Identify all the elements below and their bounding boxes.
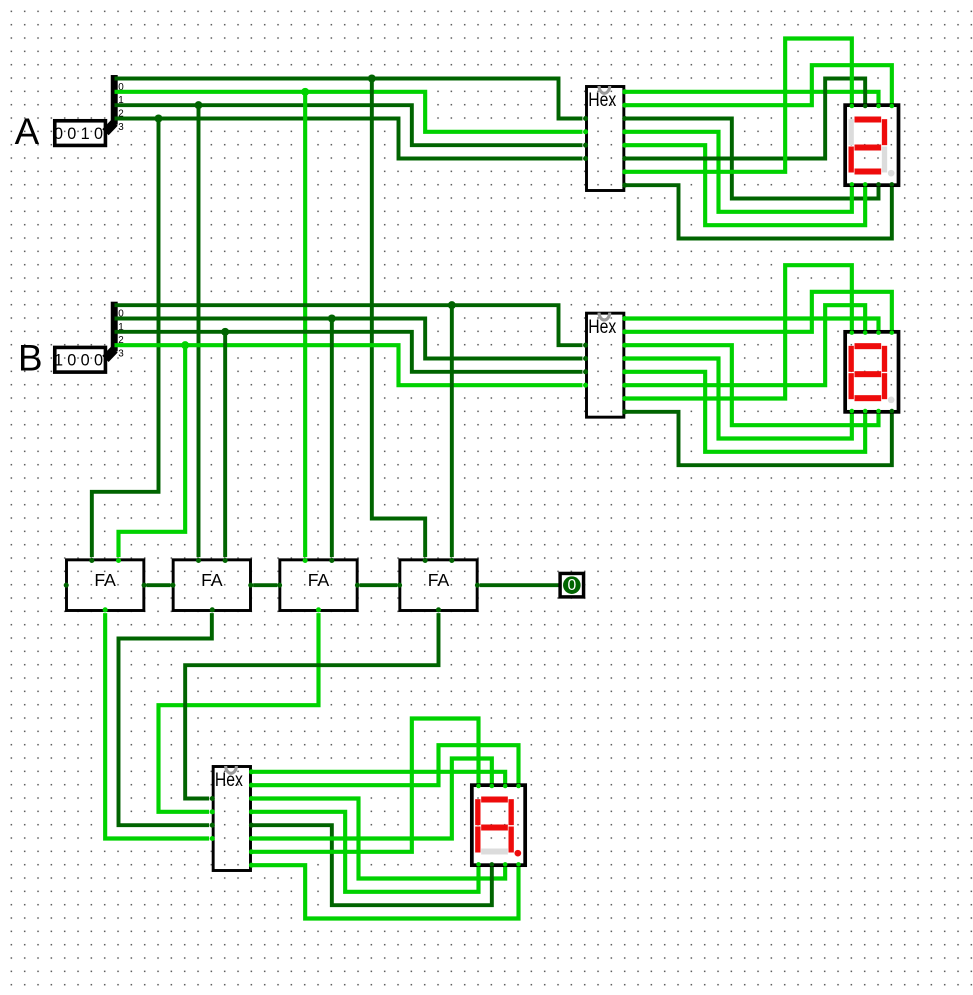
wire HexA out dp <box>625 185 892 238</box>
wire HexC out d <box>252 825 492 905</box>
svg-text:0: 0 <box>94 352 103 370</box>
subcircuit U2 HexB box <box>586 313 623 418</box>
wire carry FA3-FA4 <box>360 584 397 587</box>
wire HexA out f <box>625 78 865 158</box>
junction B3 <box>181 341 189 349</box>
svg-text:Hex: Hex <box>588 90 616 111</box>
wire HexB out d <box>625 372 865 452</box>
HexC input pin nubs <box>210 796 215 841</box>
wire B3 down to FA1 <box>118 345 185 557</box>
svg-text:0: 0 <box>67 352 76 370</box>
wire HexA out c <box>625 118 878 198</box>
wire A bit2 row <box>114 105 582 145</box>
wire FA4 sum to HexC pin0 <box>185 613 438 798</box>
junction A3 <box>154 114 162 122</box>
wire B bit2 row <box>114 332 582 372</box>
wire HexA out b <box>625 65 892 105</box>
wire HexB out f <box>625 305 865 385</box>
subcircuit FA4 box <box>400 560 477 611</box>
svg-text:0: 0 <box>94 125 103 143</box>
svg-text:FA: FA <box>201 570 223 590</box>
wire HexB out e <box>625 358 852 438</box>
svg-text:A: A <box>15 111 40 152</box>
wire carry FA1-FA2 <box>146 584 170 587</box>
wire carry FA2-FA3 <box>253 584 277 587</box>
HexB output pin nubs <box>622 316 627 414</box>
splitter A <box>105 75 124 133</box>
svg-text:0: 0 <box>567 577 576 594</box>
FA4 pin nubs <box>397 558 480 612</box>
wire HexC out b <box>252 745 519 785</box>
wire FA2 sum to HexC pin2 <box>118 613 211 825</box>
wire A bit3 row <box>114 118 582 158</box>
svg-text:0: 0 <box>54 125 63 143</box>
svg-text:B: B <box>18 337 43 378</box>
junction B1 <box>328 314 336 322</box>
wire HexC out c <box>252 798 505 878</box>
wire B bit3 row <box>114 345 582 385</box>
output pin carry (value 0) <box>560 573 583 596</box>
wire HexA out g <box>625 38 852 171</box>
HexC output pin nubs <box>249 769 254 867</box>
FA3 pin nubs <box>277 558 360 612</box>
wire A bit0 row <box>114 78 582 118</box>
svg-text:1: 1 <box>54 352 63 370</box>
HexB input pin nubs <box>583 343 588 388</box>
svg-text:3: 3 <box>118 122 124 133</box>
FA1 pin nubs <box>64 558 147 612</box>
wire B2 down to FA2 <box>224 332 227 557</box>
junction B0 <box>448 301 456 309</box>
svg-text:Hex: Hex <box>588 317 616 338</box>
wire HexA out d <box>625 145 865 225</box>
subcircuit FA3 box <box>280 560 357 611</box>
wire B bit1 row <box>114 318 582 358</box>
wire HexC out f <box>252 758 492 838</box>
wire HexC out a <box>252 772 505 784</box>
wire HexA out a <box>625 92 878 104</box>
HexA output pin nubs <box>622 89 627 187</box>
wire HexC out dp <box>252 865 519 918</box>
junction B2 <box>221 328 229 336</box>
junction A1 <box>301 88 309 96</box>
subcircuit U3 HexC box <box>213 766 250 871</box>
FA2 pin nubs <box>170 558 253 612</box>
wire HexA out e <box>625 132 852 212</box>
7-segment display DISP-B showing 8 <box>845 330 898 413</box>
wire B0 down to FA4 <box>450 305 453 557</box>
svg-text:0: 0 <box>81 352 90 370</box>
wire A1 down to FA3 <box>304 92 307 557</box>
wire HexB out a <box>625 318 878 330</box>
wire B bit0 row <box>114 305 582 345</box>
wire A0 down to FA4 <box>372 78 425 557</box>
7-segment display DISP-A showing 2 <box>845 104 898 187</box>
wire B1 down to FA3 <box>330 318 333 557</box>
svg-text:1: 1 <box>81 125 90 143</box>
input pin B (value 1000) <box>54 347 105 372</box>
junction A2 <box>194 101 202 109</box>
subcircuit U1 HexA box <box>586 86 623 191</box>
subcircuit FA1 box <box>66 560 143 611</box>
wire HexC out e <box>252 812 479 892</box>
7-segment display DISP-C showing A. <box>472 784 525 867</box>
wire HexB out b <box>625 292 892 332</box>
input pin A (value 0010) <box>54 121 105 146</box>
wire FA3 sum to HexC pin1 <box>158 613 318 812</box>
wire HexB out dp <box>625 412 892 465</box>
wire A3 down to FA1 <box>92 118 159 557</box>
svg-text:FA: FA <box>94 570 116 590</box>
wire carry FA4 to output pin <box>480 584 559 587</box>
wire HexC out g <box>252 718 479 851</box>
subcircuit FA2 box <box>173 560 250 611</box>
svg-text:FA: FA <box>308 570 330 590</box>
wire FA1 sum to HexC pin3 <box>105 613 209 838</box>
svg-text:FA: FA <box>428 570 450 590</box>
splitter B <box>105 302 124 360</box>
junction A0 <box>368 74 376 82</box>
svg-text:3: 3 <box>118 348 124 359</box>
wire HexB out g <box>625 265 852 398</box>
wire A bit1 row <box>114 92 582 132</box>
svg-text:0: 0 <box>67 125 76 143</box>
svg-text:Hex: Hex <box>215 770 243 791</box>
wire A2 down to FA2 <box>197 105 200 557</box>
HexA input pin nubs <box>583 116 588 161</box>
wire HexB out c <box>625 345 878 425</box>
